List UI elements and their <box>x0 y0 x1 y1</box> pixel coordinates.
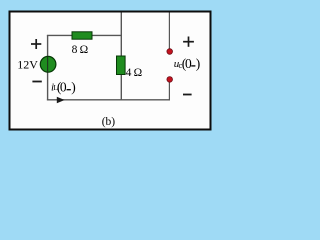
svg-text:): ) <box>196 56 201 71</box>
wire: bottom horizontal return <box>47 99 170 101</box>
voltage source 12V <box>40 56 56 72</box>
label iL(0-) <box>51 79 76 94</box>
svg-text:4 Ω: 4 Ω <box>126 67 143 79</box>
svg-text:): ) <box>71 79 76 94</box>
svg-text:12V: 12V <box>17 58 38 72</box>
wire: right branch upper (to + terminal) <box>168 13 170 51</box>
svg-text:8 Ω: 8 Ω <box>72 44 89 56</box>
wire: middle vertical branch through 4-ohm <box>120 13 122 101</box>
polarity - of port <box>183 94 192 96</box>
current arrow iL <box>57 97 65 103</box>
label uc(0-) <box>174 56 201 71</box>
svg-text:0: 0 <box>60 79 67 94</box>
wire: right branch lower (from - terminal) <box>168 81 170 100</box>
svg-text:0: 0 <box>185 56 192 71</box>
resistor 4 ohm <box>117 56 126 75</box>
wire: top horizontal of left mesh <box>47 34 122 36</box>
polarity + of port <box>183 37 194 47</box>
terminal node top (red) <box>167 49 173 55</box>
resistor 8 ohm <box>72 32 92 39</box>
wire: source branch vertical (left) <box>47 35 49 100</box>
figure frame / top bus wire <box>10 12 211 130</box>
terminal node bottom (red) <box>167 77 173 83</box>
polarity + of source <box>31 39 41 49</box>
wire lead through source <box>47 57 49 72</box>
polarity - of source <box>32 81 41 83</box>
svg-text:(b): (b) <box>102 116 116 128</box>
